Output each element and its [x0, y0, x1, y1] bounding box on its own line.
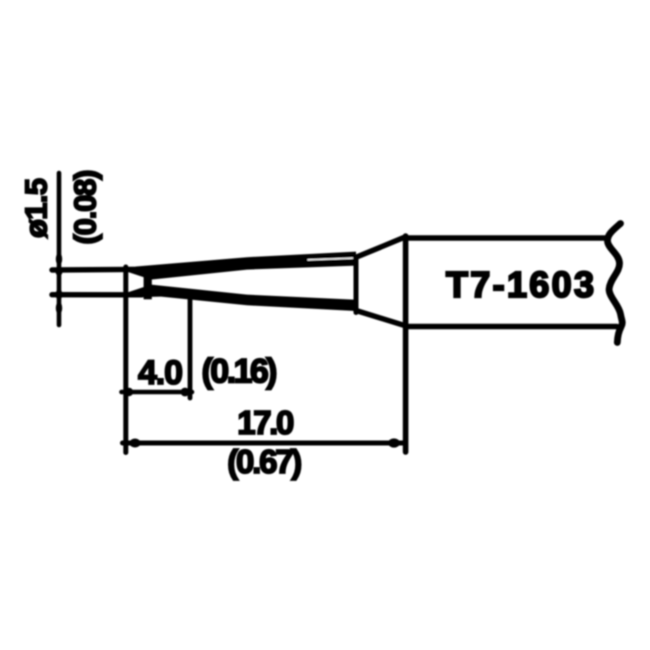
svg-text:(0.67): (0.67) — [227, 443, 302, 480]
extension line right of 4.0 dimension — [188, 299, 193, 398]
blade upper tapered wall with heel wedge edge — [128, 252, 356, 280]
body left edge and right extension line of 17.0 — [403, 236, 409, 452]
blade lower tapered wall with heel wedge edge — [128, 285, 356, 311]
dot terminator left of 17.0 dimension — [129, 439, 140, 448]
dimension line 17.0 — [123, 441, 405, 446]
extension line left (shared by 4.0 and 17.0 dimensions) — [123, 267, 128, 453]
blade top outer outline — [52, 267, 142, 273]
tick blob lower on diameter dimension line — [56, 302, 62, 314]
body top edge — [406, 235, 609, 240]
white sliver between top outer line and upper inner line near cone — [308, 258, 353, 260]
svg-text:ø1.5: ø1.5 — [19, 178, 54, 238]
dot terminator right of 4.0 dimension — [181, 388, 190, 397]
blade bottom outer outline — [52, 292, 142, 297]
tick blob at blade top crossing — [55, 266, 62, 276]
svg-text:17.0: 17.0 — [237, 404, 294, 441]
svg-text:(0.16): (0.16) — [202, 353, 278, 391]
blade heel vertical bar — [144, 269, 152, 300]
svg-text:(0.08): (0.08) — [68, 170, 103, 245]
break squiggle at right end of body — [607, 224, 622, 343]
cone top line — [356, 237, 406, 257]
cone bottom line — [356, 311, 406, 326]
svg-text:T7-1603: T7-1603 — [446, 264, 594, 305]
dot terminator right of 17.0 dimension — [388, 438, 400, 447]
svg-text:4.0: 4.0 — [138, 354, 183, 392]
dot terminator left of 4.0 dimension — [125, 388, 133, 396]
body bottom edge — [406, 324, 617, 329]
dimension line vertical for diameter 1.5 — [57, 173, 62, 325]
tick blob at blade bottom crossing — [55, 290, 62, 300]
tick blob upper on diameter dimension line — [56, 253, 62, 265]
dimension line 4.0 — [122, 390, 193, 395]
cone small end vertical — [354, 257, 359, 313]
